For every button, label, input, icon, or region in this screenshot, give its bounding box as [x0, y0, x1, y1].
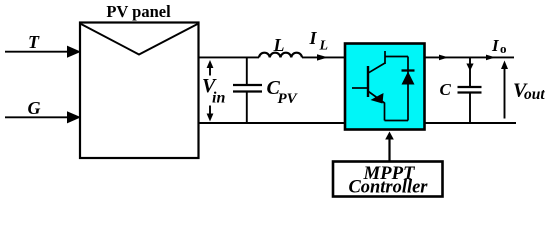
svg-text:in: in [212, 89, 225, 106]
node: Vin measurement arrows [209, 65, 211, 76]
wire: inductor to chopper block [302, 56, 345, 58]
svg-text:Controller: Controller [349, 177, 429, 198]
PV panel block [80, 23, 199, 159]
PV panel V-shape glyph [81, 24, 198, 55]
internal top rail [385, 56, 408, 58]
wire: MPPT to block, with arrow [388, 138, 390, 161]
transistor Q1 [367, 66, 369, 97]
svg-text:L: L [319, 39, 329, 54]
input G arrow [5, 116, 68, 118]
chopper (IGBT/diode) block [345, 44, 425, 130]
svg-text:T: T [28, 32, 40, 52]
svg-text:L: L [273, 35, 285, 55]
internal bottom rail [385, 120, 409, 122]
svg-text:I: I [309, 28, 318, 48]
input T arrow [5, 51, 68, 53]
svg-text:G: G [28, 98, 41, 118]
inductor L [259, 53, 302, 58]
arrow I_o [486, 55, 496, 61]
svg-text:PV: PV [278, 91, 299, 107]
svg-text:C: C [440, 80, 452, 99]
wire: top, PV to inductor [199, 56, 260, 58]
wire: top, block to output [425, 56, 515, 58]
arrow after block [439, 55, 449, 61]
Vout measurement arrow [504, 66, 506, 119]
svg-text:out: out [524, 86, 545, 103]
capacitor C_PV [246, 57, 248, 85]
capacitor C (output) [469, 57, 471, 87]
svg-text:o: o [500, 41, 507, 56]
arrow I_L on wire [317, 54, 328, 60]
svg-text:PV panel: PV panel [106, 2, 171, 21]
diode D1 [407, 57, 409, 121]
MPPT Controller block [333, 162, 443, 197]
wire: bottom, block to output [425, 122, 517, 124]
wire: bottom, PV to chopper block [199, 122, 346, 124]
